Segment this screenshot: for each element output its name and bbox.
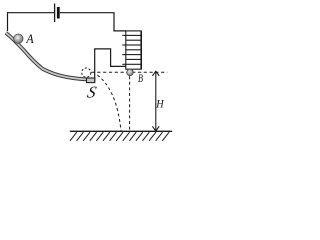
svg-text:H: H	[155, 97, 164, 111]
svg-text:B: B	[138, 71, 143, 85]
svg-text:A: A	[25, 32, 34, 46]
